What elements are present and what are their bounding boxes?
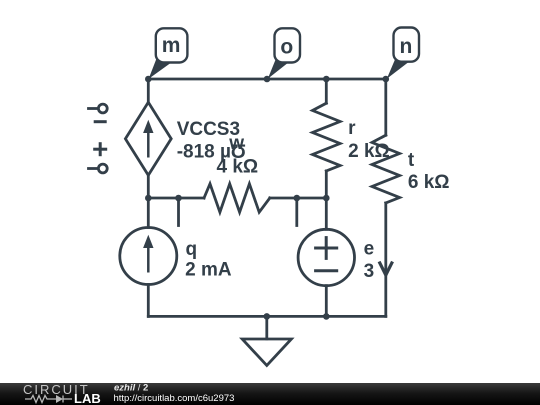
wire stub right — [295, 198, 298, 226]
wire middle rail left — [148, 197, 204, 200]
wire q bottom — [147, 285, 150, 317]
wire bottom rail — [148, 315, 385, 318]
node o dot — [264, 76, 271, 83]
logo resistor-diode glyph — [25, 396, 72, 403]
node label m — [149, 28, 188, 79]
wire top rail — [148, 78, 385, 81]
current source q circle — [120, 228, 177, 285]
junction ground — [264, 313, 271, 320]
footer bar — [0, 383, 540, 405]
wire q top — [147, 198, 150, 228]
current source q arrow — [143, 235, 153, 273]
svg-text:LAB: LAB — [74, 391, 101, 405]
resistor t — [372, 79, 400, 316]
minus sign — [95, 120, 105, 123]
wire e bottom — [325, 286, 328, 317]
junction q top — [145, 195, 152, 202]
component labels — [177, 118, 450, 282]
resistor w body — [204, 184, 270, 212]
VCCS control terminal top — [89, 104, 108, 113]
ground — [242, 316, 291, 365]
voltage source plus sign — [316, 238, 337, 259]
VCCS3 diamond body — [125, 102, 171, 175]
VCCS arrow — [143, 120, 153, 158]
wire VCCS bottom — [147, 175, 150, 198]
node m dot — [145, 76, 152, 83]
node n dot — [383, 76, 390, 83]
wire middle rail right — [270, 197, 327, 200]
junction stub right — [294, 195, 301, 202]
wire stub left — [177, 198, 180, 226]
wire VCCS top — [147, 79, 150, 102]
voltage source minus sign — [316, 269, 337, 272]
node label o — [268, 28, 300, 79]
wire e top — [325, 198, 328, 229]
resistor r — [313, 79, 341, 198]
junction stub left — [175, 195, 182, 202]
junction e bottom — [323, 313, 330, 320]
VCCS control terminal bottom — [89, 164, 108, 173]
junction r bottom — [323, 195, 330, 202]
node label n — [387, 28, 419, 79]
junction r top — [323, 76, 330, 83]
plus sign — [95, 144, 106, 155]
current direction arrow on t branch — [380, 263, 392, 275]
svg-text:http://circuitlab.com/c6u2973: http://circuitlab.com/c6u2973 — [114, 393, 235, 404]
voltage source e circle — [298, 229, 354, 285]
